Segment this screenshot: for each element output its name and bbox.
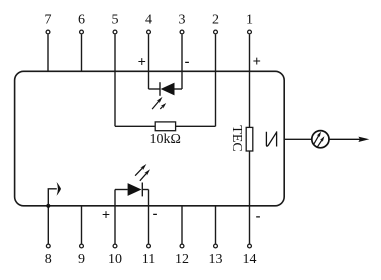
svg-text:1: 1 <box>246 12 253 27</box>
svg-text:7: 7 <box>45 12 52 27</box>
svg-text:6: 6 <box>78 12 85 27</box>
svg-text:-: - <box>256 209 261 225</box>
svg-text:11: 11 <box>142 252 155 267</box>
svg-text:14: 14 <box>243 252 257 267</box>
svg-text:10kΩ: 10kΩ <box>149 132 180 147</box>
svg-text:4: 4 <box>145 12 152 27</box>
svg-text:13: 13 <box>209 252 223 267</box>
svg-text:9: 9 <box>78 252 85 267</box>
svg-text:8: 8 <box>45 252 52 267</box>
svg-text:-: - <box>153 206 158 222</box>
svg-text:10: 10 <box>108 252 122 267</box>
svg-text:12: 12 <box>175 252 189 267</box>
svg-text:5: 5 <box>112 12 119 27</box>
svg-text:TEC: TEC <box>229 125 244 151</box>
svg-text:+: + <box>253 54 261 70</box>
svg-text:+: + <box>102 207 110 223</box>
svg-text:3: 3 <box>179 12 186 27</box>
svg-text:2: 2 <box>212 12 219 27</box>
svg-text:+: + <box>138 54 146 70</box>
svg-text:-: - <box>185 54 190 70</box>
